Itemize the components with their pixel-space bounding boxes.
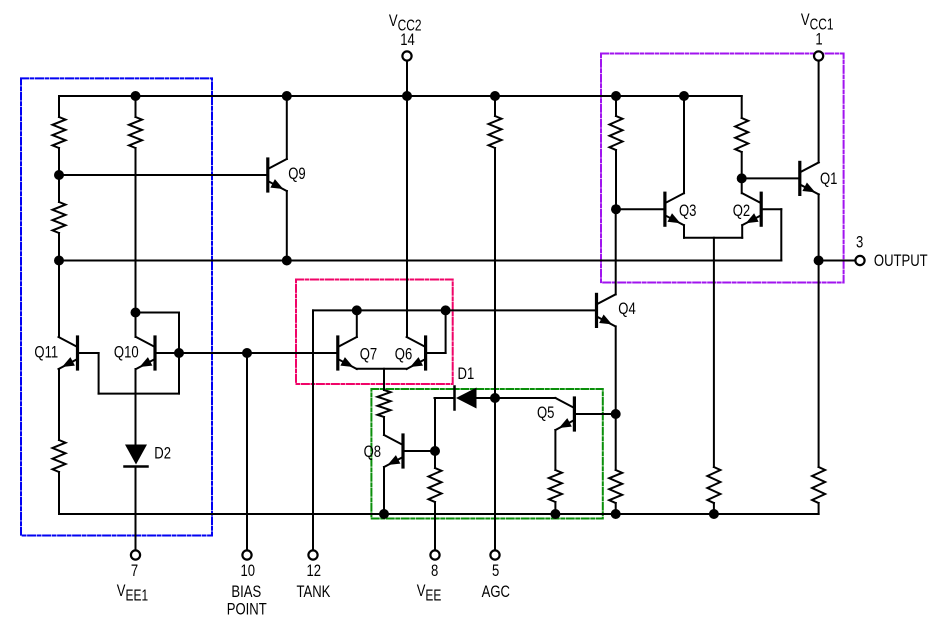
label AGC	[482, 582, 510, 601]
wire Q10 collector	[135, 313, 137, 338]
wire Q8 base	[405, 450, 436, 452]
label pin 5	[492, 561, 499, 580]
label Q2	[733, 201, 750, 220]
svg-text:Q5: Q5	[537, 403, 554, 422]
wire	[135, 96, 137, 117]
label Q6	[395, 345, 412, 364]
wire	[554, 502, 556, 514]
node AGC pull-up	[490, 91, 500, 101]
transistor Q11	[59, 337, 78, 369]
svg-text:TANK: TANK	[296, 582, 330, 601]
wire Q3 base	[616, 208, 663, 210]
resistor R13	[812, 467, 825, 503]
resistor R12	[707, 467, 720, 503]
svg-text:Q11: Q11	[34, 343, 58, 362]
wire	[741, 96, 743, 118]
transistor Q1	[800, 162, 819, 194]
label Q5	[537, 403, 554, 422]
label pin 1	[815, 30, 822, 49]
wire	[434, 451, 436, 468]
wire	[58, 233, 60, 261]
wire emitter tap	[383, 369, 385, 390]
svg-text:7: 7	[131, 561, 138, 580]
node Q5 emitter	[550, 509, 560, 519]
svg-text:10: 10	[241, 561, 256, 580]
transistor Q9	[268, 159, 287, 191]
wire VCC1 to Q1	[818, 61, 820, 163]
svg-text:5: 5	[492, 561, 499, 580]
svg-text:14: 14	[400, 30, 415, 49]
wire emitters Q3 Q2	[684, 237, 742, 239]
pin 7 terminal	[131, 550, 140, 559]
label Q1	[820, 169, 837, 188]
wire Q7 collector stub	[356, 310, 358, 337]
label POINT	[227, 600, 267, 619]
resistor R7	[429, 468, 442, 502]
node Q8 emitter	[379, 509, 389, 519]
wire Q9 base	[59, 174, 266, 176]
label pin 8	[431, 561, 438, 580]
node top rail	[679, 91, 689, 101]
output buffer box (purple dashed)	[601, 54, 844, 283]
wire	[615, 414, 617, 470]
pin 5 terminal	[490, 550, 499, 559]
node rail2 left	[54, 256, 64, 266]
node	[709, 509, 719, 519]
wire emitter tap	[713, 238, 715, 467]
node Q3 base	[611, 204, 621, 214]
wire bottom rail	[59, 513, 819, 515]
wire top VCC2 rail	[59, 95, 742, 97]
svg-text:VEE1: VEE1	[117, 581, 149, 603]
pin 12 terminal	[308, 550, 317, 559]
label Q7	[360, 345, 377, 364]
wire	[615, 503, 617, 514]
pin 3 terminal	[855, 256, 864, 265]
resistor R10	[610, 116, 623, 150]
wire to pin 5	[494, 398, 496, 550]
node Q5 base tap	[611, 409, 621, 419]
bias network box (blue dashed)	[21, 78, 212, 535]
wire tank node to Q4 base	[313, 309, 595, 311]
label TANK	[296, 582, 330, 601]
node top rail	[611, 91, 621, 101]
wire Q3 emitter	[683, 225, 685, 238]
label Q9	[288, 164, 305, 183]
svg-text:Q9: Q9	[288, 164, 305, 183]
resistor R6	[378, 390, 391, 417]
node D1 anode	[490, 393, 500, 403]
wire	[58, 96, 60, 117]
wire	[383, 417, 385, 435]
resistor R11	[735, 118, 748, 152]
transistor Q6	[407, 337, 426, 369]
transistor Q8	[384, 435, 403, 467]
svg-text:Q4: Q4	[618, 299, 635, 318]
wire AGC line	[494, 148, 496, 398]
svg-text:POINT: POINT	[227, 600, 267, 619]
label Q3	[679, 201, 696, 220]
wire Q5 collector	[495, 397, 555, 399]
node Q9 base tee	[54, 170, 64, 180]
wire Q3 collector	[683, 96, 685, 193]
svg-text:D1: D1	[458, 364, 475, 383]
transistor Q3	[665, 193, 684, 225]
wire collector loop right	[178, 313, 180, 394]
pin 1 terminal	[814, 51, 823, 60]
node Q1 base	[737, 173, 747, 183]
wire Q4 emitter	[615, 326, 617, 414]
node Q7 collector	[352, 305, 362, 315]
resistor R2	[53, 202, 66, 233]
wire	[58, 472, 60, 514]
wire VCC2	[406, 61, 408, 337]
resistor R1	[53, 117, 66, 148]
svg-text:VEE: VEE	[417, 581, 442, 603]
label pin 3	[856, 233, 863, 252]
wire Q2 base	[763, 208, 782, 210]
pin 10 terminal	[242, 550, 251, 559]
svg-text:Q7: Q7	[360, 345, 377, 364]
wire collector loop top	[136, 312, 180, 314]
resistor R5	[489, 116, 502, 148]
wire Q1 base	[742, 177, 799, 179]
wire	[713, 503, 715, 514]
pin 8 terminal	[430, 550, 439, 559]
svg-text:D2: D2	[154, 444, 171, 463]
label pin 14	[400, 30, 415, 49]
svg-text:Q3: Q3	[679, 201, 696, 220]
wire Q11 emitter	[58, 369, 60, 440]
wire	[58, 261, 60, 338]
svg-text:12: 12	[307, 561, 322, 580]
transistor Q10	[136, 337, 155, 369]
wire Q4 collector	[615, 209, 617, 294]
wire D1 anode	[477, 397, 496, 399]
wire Q8 emitter	[383, 467, 385, 514]
label Q10	[114, 343, 139, 362]
transistor Q2	[742, 193, 761, 225]
label VEE1	[117, 581, 149, 603]
svg-text:Q1: Q1	[820, 169, 837, 188]
wire	[58, 148, 60, 202]
wire Q10 emitter	[135, 369, 137, 445]
transistor Q7	[338, 337, 357, 369]
wire Q6 base stub	[445, 310, 447, 353]
wire Q1 emitter	[818, 194, 820, 260]
diode D1	[455, 387, 477, 410]
label VCC1	[801, 10, 834, 32]
node bias point	[242, 348, 252, 358]
node Q9 emitter	[282, 256, 292, 266]
resistor R9	[609, 470, 622, 503]
wire to pin 8	[434, 502, 436, 550]
node Q10 collector tie	[131, 308, 141, 318]
node Q8 base	[430, 446, 440, 456]
wire D1 to Q8 base	[434, 398, 436, 451]
resistor R8	[549, 470, 562, 502]
wire base link	[99, 393, 179, 395]
label pin 10	[241, 561, 256, 580]
wire Q5 base	[576, 413, 616, 415]
wire emitters Q7 Q6	[357, 368, 407, 370]
wire Q2 emitter	[741, 225, 743, 238]
wire Q10/Q7 base rail	[157, 352, 337, 354]
label VEE	[417, 581, 442, 603]
svg-text:8: 8	[431, 561, 438, 580]
wire output	[819, 260, 856, 262]
svg-text:OUTPUT: OUTPUT	[874, 251, 928, 270]
wire rail to Q2 base	[59, 260, 781, 262]
label OUTPUT	[874, 251, 928, 270]
oscillator pair box (magenta dashed)	[296, 280, 453, 385]
wire	[818, 261, 820, 468]
resistor R3	[53, 440, 66, 472]
transistor Q5	[555, 398, 574, 430]
svg-text:Q10: Q10	[114, 343, 139, 362]
node Q6 base	[441, 305, 451, 315]
wire Q9 collector	[286, 96, 288, 159]
wire	[494, 96, 496, 116]
svg-text:AGC: AGC	[482, 582, 510, 601]
label Q8	[364, 442, 381, 461]
label D1	[458, 364, 475, 383]
wire Q11 base	[79, 352, 99, 354]
wire	[741, 152, 743, 178]
label pin 7	[131, 561, 138, 580]
wire	[615, 150, 617, 209]
wire tank stub	[312, 310, 314, 550]
label Q11	[34, 343, 58, 362]
node VCC2 rail	[402, 91, 412, 101]
wire D1 cathode	[435, 397, 454, 399]
wire Q6 base	[427, 352, 446, 354]
resistor R4	[129, 117, 142, 148]
transistor Q4	[597, 294, 616, 326]
svg-text:BIAS: BIAS	[231, 582, 261, 601]
label BIAS	[231, 582, 261, 601]
node Q9 collector	[282, 91, 292, 101]
svg-text:3: 3	[856, 233, 863, 252]
wire	[615, 96, 617, 116]
svg-text:Q6: Q6	[395, 345, 412, 364]
node Q10 base	[174, 348, 184, 358]
node	[611, 509, 621, 519]
label VCC2	[389, 11, 422, 33]
wire to pin 7	[135, 467, 137, 551]
label D2	[154, 444, 171, 463]
wire	[818, 503, 820, 514]
diode D2	[125, 445, 148, 467]
pin 14 terminal	[402, 51, 411, 60]
wire Q5 emitter	[554, 430, 556, 470]
node top rail R4	[131, 91, 141, 101]
node output	[814, 256, 824, 266]
wire	[135, 148, 137, 313]
wire Q9 emitter	[286, 191, 288, 261]
wire Q11 base drop	[98, 353, 100, 394]
svg-text:1: 1	[815, 30, 822, 49]
wire Q2 base drop	[780, 209, 782, 260]
wire Q2 collector	[741, 178, 743, 193]
label Q4	[618, 299, 635, 318]
AGC box (green dashed)	[371, 389, 602, 519]
svg-text:Q8: Q8	[364, 442, 381, 461]
label pin 12	[307, 561, 322, 580]
svg-text:Q2: Q2	[733, 201, 750, 220]
wire bias point	[246, 353, 248, 550]
